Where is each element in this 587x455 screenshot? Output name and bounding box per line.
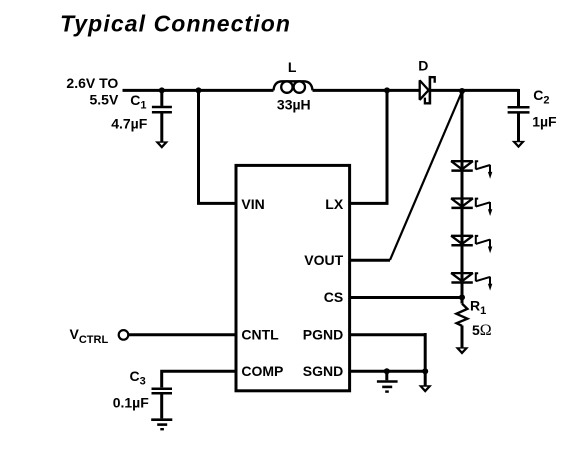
svg-text:C3: C3 xyxy=(130,368,146,388)
svg-text:R1: R1 xyxy=(470,297,486,317)
svg-text:VOUT: VOUT xyxy=(304,252,343,268)
svg-text:VCTRL: VCTRL xyxy=(70,326,109,346)
svg-text:Ω: Ω xyxy=(480,322,492,339)
svg-text:2.6V TO: 2.6V TO xyxy=(66,75,118,91)
svg-text:C2: C2 xyxy=(533,87,549,107)
svg-text:5: 5 xyxy=(472,322,480,338)
svg-text:4.7µF: 4.7µF xyxy=(111,115,148,131)
svg-text:1µF: 1µF xyxy=(532,114,557,130)
svg-text:D: D xyxy=(418,58,428,74)
svg-text:L: L xyxy=(288,59,297,75)
svg-text:COMP: COMP xyxy=(241,363,283,379)
svg-text:VIN: VIN xyxy=(241,196,264,212)
svg-text:0.1µF: 0.1µF xyxy=(113,394,150,410)
svg-text:LX: LX xyxy=(325,196,344,212)
svg-text:CS: CS xyxy=(324,289,343,305)
svg-text:CNTL: CNTL xyxy=(241,326,279,342)
svg-text:C1: C1 xyxy=(130,92,146,112)
svg-text:SGND: SGND xyxy=(303,363,343,379)
svg-text:Typical Connection: Typical Connection xyxy=(60,11,291,37)
svg-text:33µH: 33µH xyxy=(277,96,311,112)
svg-text:5.5V: 5.5V xyxy=(89,92,118,108)
svg-text:PGND: PGND xyxy=(303,326,343,342)
